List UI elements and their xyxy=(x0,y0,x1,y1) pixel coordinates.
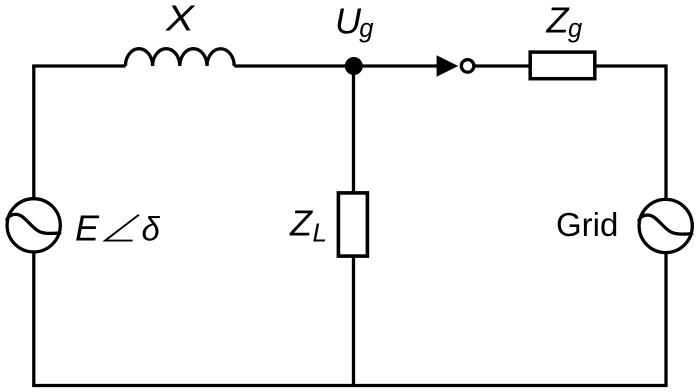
arrow (power flow direction) xyxy=(437,55,459,77)
wire node to arrow xyxy=(354,64,438,67)
svg-text:g: g xyxy=(568,15,582,43)
resistor ZL xyxy=(338,193,367,256)
svg-text:U: U xyxy=(335,0,362,41)
bottom wire xyxy=(32,384,667,387)
svg-text:X: X xyxy=(165,0,196,39)
wire Grid source to bottom-right corner xyxy=(664,252,667,386)
inductor X xyxy=(125,49,234,66)
wire Zg to top-right corner and down to Grid source xyxy=(597,66,667,200)
wire ZL to bottom wire xyxy=(352,257,355,386)
wire E source to bottom-left corner xyxy=(32,252,35,386)
sine wave of E source xyxy=(7,214,62,233)
wire left vertical top (corner to E source) xyxy=(32,66,35,200)
sine wave of Grid source xyxy=(639,215,694,234)
wire top-left horizontal (left corner to inductor) xyxy=(34,64,126,66)
terminal circle xyxy=(461,60,474,73)
svg-text:Z: Z xyxy=(289,203,313,244)
wire terminal circle to Zg xyxy=(474,64,529,67)
node Ug (junction dot) xyxy=(345,57,363,75)
resistor Zg xyxy=(530,52,595,79)
svg-text:Grid: Grid xyxy=(556,206,618,243)
svg-text:g: g xyxy=(359,15,373,43)
source Grid (AC circle) xyxy=(639,199,692,252)
svg-text:Z: Z xyxy=(546,0,570,41)
svg-text:L: L xyxy=(313,217,327,247)
source E (AC circle) xyxy=(7,199,60,252)
angle symbol ∠ xyxy=(105,215,139,241)
svg-text:E: E xyxy=(75,208,100,249)
wire node Ug down to ZL xyxy=(352,66,355,192)
svg-text:δ: δ xyxy=(142,211,161,248)
wire inductor to node Ug xyxy=(234,64,354,67)
